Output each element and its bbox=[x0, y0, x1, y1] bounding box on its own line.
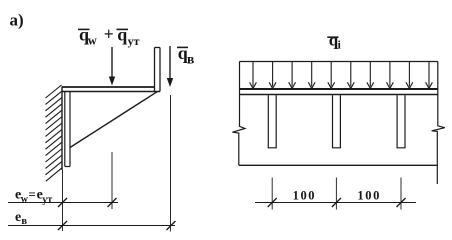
svg-text:ут: ут bbox=[128, 34, 140, 48]
svg-text:e: e bbox=[15, 210, 21, 225]
svg-text:+: + bbox=[104, 24, 114, 44]
svg-text:q: q bbox=[117, 25, 127, 45]
svg-text:а): а) bbox=[10, 11, 24, 30]
svg-text:в: в bbox=[21, 216, 27, 227]
svg-text:в: в bbox=[187, 52, 194, 67]
svg-text:100: 100 bbox=[357, 188, 381, 202]
svg-text:w: w bbox=[88, 34, 97, 48]
svg-text:ут: ут bbox=[42, 194, 52, 205]
svg-text:=: = bbox=[28, 187, 35, 202]
svg-text:100: 100 bbox=[293, 188, 317, 202]
